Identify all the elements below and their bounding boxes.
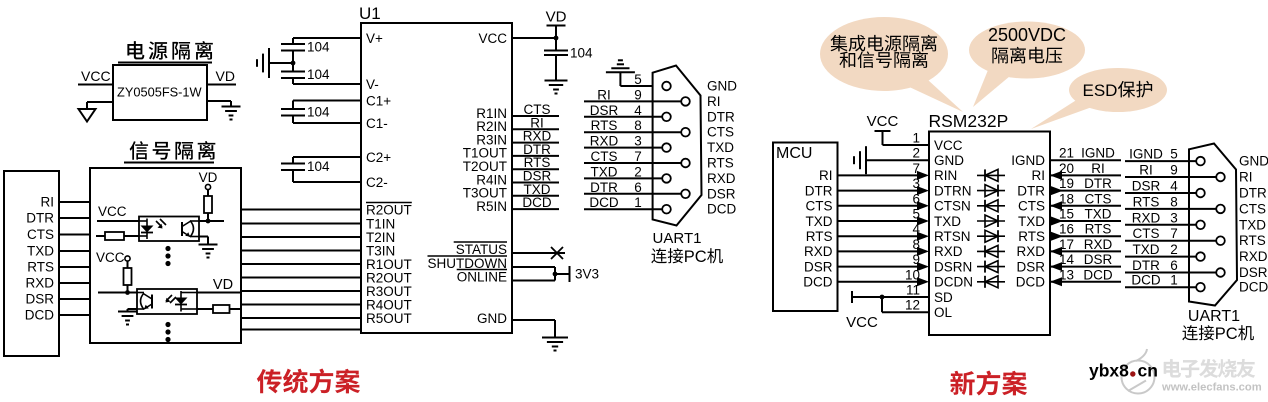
optocoupler U3 (channel 2) box [137, 289, 197, 314]
capacitor C1 104 [281, 40, 330, 55]
svg-text:C1+: C1+ [366, 93, 391, 108]
svg-text:RXD: RXD [1016, 244, 1045, 259]
svg-text:4: 4 [634, 103, 642, 118]
callout bubble ESD保护 [1031, 68, 1167, 129]
wire opto1 collector to pullup [199, 220, 224, 222]
power rail 3V3 [570, 266, 600, 282]
svg-text:RTS: RTS [1133, 194, 1160, 209]
svg-text:6: 6 [912, 191, 920, 206]
svg-text:13: 13 [1059, 267, 1074, 282]
svg-text:4: 4 [1170, 179, 1178, 194]
svg-text:GND: GND [477, 311, 507, 326]
svg-text:CTS: CTS [707, 125, 734, 140]
wire ground to pin 2 [866, 146, 929, 161]
DB9 right-side signal names (left connector) [707, 79, 737, 217]
svg-text:1: 1 [1170, 273, 1178, 288]
svg-text:DTR: DTR [590, 180, 618, 195]
svg-text:RXD: RXD [934, 244, 963, 259]
resistor (opto2 collector pullup) [124, 268, 132, 285]
svg-text:104: 104 [307, 67, 330, 82]
svg-text:2: 2 [634, 164, 642, 179]
U1 right net stubs CTS RI RXD DTR RTS DSR TXD DCD [512, 102, 559, 210]
caption 传统方案 (traditional solution) [257, 369, 360, 394]
svg-text:1: 1 [634, 195, 642, 210]
svg-text:RTS: RTS [1085, 222, 1112, 237]
svg-text:DSR: DSR [1084, 252, 1113, 267]
svg-text:IGND: IGND [1129, 147, 1163, 162]
svg-text:DTR: DTR [707, 109, 735, 124]
svg-text:7: 7 [912, 161, 920, 176]
svg-text:SD: SD [934, 290, 953, 305]
svg-text:18: 18 [1059, 191, 1074, 206]
wire resistor to collector node opto2 [125, 285, 130, 295]
U1 right pin labels [428, 31, 508, 326]
svg-text:CTS: CTS [806, 199, 833, 214]
svg-text:2: 2 [1170, 242, 1178, 257]
optocoupler U2 (channel 1) box [139, 217, 199, 242]
svg-text:9: 9 [1170, 163, 1178, 178]
svg-text:RXD: RXD [1084, 237, 1113, 252]
net label VD (opto2) [213, 277, 233, 293]
svg-text:DCD: DCD [1083, 267, 1112, 282]
svg-text:6: 6 [634, 180, 642, 195]
svg-text:15: 15 [1059, 207, 1074, 222]
net label VD (power module output) [216, 68, 235, 84]
svg-text:DTR: DTR [805, 183, 833, 198]
connector box (left serial signals) [4, 171, 59, 356]
DB9 connector UART1 shell (right) [1189, 144, 1237, 306]
MCU box [773, 143, 838, 312]
callout bubble 集成电源隔离和信号隔离 [820, 17, 963, 112]
svg-text:RI: RI [1091, 161, 1105, 176]
svg-text:RTSN: RTSN [934, 229, 971, 244]
net label VCC (opto2) [96, 250, 125, 265]
svg-text:14: 14 [1059, 252, 1075, 267]
svg-text:DCD: DCD [803, 275, 832, 290]
svg-text:GND: GND [1239, 154, 1268, 169]
svg-text:IGND: IGND [1081, 146, 1115, 161]
watermark logo circle with sprout [1122, 349, 1155, 394]
power isolation module ZY0505FS-1W [113, 65, 207, 120]
svg-text:VCC: VCC [81, 68, 111, 84]
svg-text:RXD: RXD [1132, 210, 1161, 225]
svg-text:RSM232P: RSM232P [929, 111, 1009, 131]
svg-text:RTS: RTS [707, 156, 734, 171]
svg-text:VD: VD [213, 277, 233, 293]
wires MCU to RSM232P pins 7 3 6 5 4 8 9 10 [838, 161, 930, 286]
earth ground (opto1 emitter) [199, 245, 218, 258]
svg-text:8: 8 [912, 237, 920, 252]
svg-text:RXD: RXD [804, 244, 833, 259]
svg-text:RXD: RXD [25, 276, 54, 291]
svg-text:C2-: C2- [366, 175, 388, 190]
capacitor C3 104 [281, 105, 330, 120]
svg-text:TXD: TXD [806, 214, 833, 229]
LED (opto1 emitter diode) [139, 219, 154, 240]
terminal circle VD opto1 [205, 184, 210, 189]
wire C3 to U1 C1- [293, 116, 361, 124]
wire power module to VD [207, 84, 236, 86]
svg-text:DSR: DSR [1016, 259, 1045, 274]
no-connect X on STATUS [512, 247, 565, 259]
watermark text ybx8.cn [1089, 361, 1158, 381]
svg-text:R5OUT: R5OUT [366, 311, 412, 326]
svg-text:VCC: VCC [934, 138, 963, 153]
svg-text:DTR: DTR [1132, 258, 1160, 273]
svg-text:IGND: IGND [1011, 153, 1045, 168]
svg-text:6: 6 [1170, 258, 1178, 273]
svg-text:9: 9 [634, 87, 642, 102]
DB9 pin circles (left connector) [662, 82, 690, 214]
earth ground (power module right) [222, 107, 241, 120]
svg-text:8: 8 [634, 118, 642, 133]
svg-text:2500VDC: 2500VDC [988, 25, 1066, 45]
svg-text:5: 5 [1170, 147, 1178, 162]
wire VCC to power module [78, 84, 113, 86]
wires VCC to pins 11 and 12 [852, 283, 929, 313]
signal isolation box [90, 168, 241, 343]
svg-text:3: 3 [912, 176, 920, 191]
svg-text:8: 8 [1170, 194, 1178, 209]
DB9 left stub wires with labels and pin numbers [584, 72, 681, 210]
svg-text:RTS: RTS [1018, 229, 1045, 244]
svg-text:DCD: DCD [1131, 273, 1160, 288]
svg-text:DTR: DTR [1084, 176, 1112, 191]
svg-text:RTS: RTS [806, 229, 833, 244]
svg-text:CTSN: CTSN [934, 199, 971, 214]
svg-text:104: 104 [307, 40, 330, 55]
svg-text:CTS: CTS [1239, 201, 1266, 216]
svg-text:RTS: RTS [27, 260, 54, 275]
svg-text:TXD: TXD [1133, 242, 1160, 257]
svg-text:RIN: RIN [934, 168, 957, 183]
svg-text:VD: VD [546, 9, 567, 26]
wire VCC to resistor opto2 [127, 261, 129, 268]
svg-text:TXD: TXD [1018, 214, 1045, 229]
svg-text:ESD: ESD [1083, 81, 1118, 100]
wire resistor to collector node opto1 [206, 213, 211, 223]
svg-text:TXD: TXD [591, 164, 618, 179]
svg-text:11: 11 [906, 283, 920, 298]
svg-text:7: 7 [634, 149, 642, 164]
capacitor C5 104 [544, 38, 593, 80]
svg-text:3V3: 3V3 [575, 267, 599, 282]
terminal circle VCC opto2 [125, 256, 130, 261]
ellipsis dots (more channels, lower) [165, 322, 170, 342]
svg-text:TXD: TXD [1239, 217, 1266, 232]
svg-text:C1-: C1- [366, 116, 388, 131]
svg-text:RI: RI [41, 195, 55, 210]
svg-text:20: 20 [1059, 161, 1074, 176]
earth ground (RSM232P pin2, rotated) [854, 146, 866, 174]
svg-text:TXD: TXD [934, 214, 961, 229]
svg-text:RI: RI [1139, 163, 1153, 178]
svg-text:DCD: DCD [589, 195, 618, 210]
wire VCC to pin 1 [883, 131, 930, 146]
wires left connector to signal isolation box [59, 202, 90, 315]
svg-text:DCD: DCD [1239, 280, 1268, 295]
svg-text:104: 104 [570, 46, 593, 61]
svg-text:DSR: DSR [25, 292, 54, 307]
label power-isolation title 电源隔离 [118, 41, 213, 63]
svg-text:DTR: DTR [1017, 183, 1045, 198]
DB9 right stub wires with labels and pin numbers [1125, 147, 1216, 288]
svg-text:UART1: UART1 [1188, 308, 1240, 325]
svg-text:10: 10 [905, 267, 920, 282]
IC U1 reference label [359, 4, 381, 23]
svg-text:2: 2 [912, 146, 920, 161]
wire U1 GND to earth [512, 320, 555, 337]
svg-text:9: 9 [912, 252, 920, 267]
svg-text:RI: RI [597, 87, 611, 102]
svg-text:C2+: C2+ [366, 150, 391, 165]
svg-text:DTR: DTR [1239, 186, 1267, 201]
svg-text:U1: U1 [359, 4, 381, 23]
svg-text:RTS: RTS [1239, 233, 1266, 248]
wire opto2 emitter to ground [128, 309, 138, 311]
svg-text:PC: PC [1215, 325, 1238, 343]
U1 left pin labels [366, 31, 412, 326]
wire power module pin2 left [87, 102, 113, 109]
svg-text:ybx8: ybx8 [1089, 361, 1129, 381]
wires signal isolation box to U1 [241, 210, 361, 330]
svg-text:TXD: TXD [1085, 207, 1112, 222]
svg-text:GND: GND [934, 153, 964, 168]
svg-text:104: 104 [307, 105, 330, 120]
RSM232P right stub wires pins 21 20 19 18 15 16 17 14 13 [1050, 146, 1121, 287]
callout bubble 2500VDC 隔离电压 [969, 22, 1085, 108]
svg-text:CTS: CTS [1018, 199, 1045, 214]
svg-text:7: 7 [1170, 226, 1178, 241]
svg-text:V-: V- [366, 77, 379, 92]
capacitor C2 104 [281, 63, 330, 82]
power rail VCC (RSM232P pin1) [867, 113, 899, 145]
svg-text:cn: cn [1138, 361, 1158, 381]
svg-text:DCD: DCD [25, 308, 54, 323]
svg-text:VD: VD [199, 170, 218, 185]
photon arrow opto1 [156, 219, 166, 229]
svg-text:CTS: CTS [591, 149, 618, 164]
svg-text:R2OUT: R2OUT [366, 202, 412, 217]
svg-text:R5IN: R5IN [476, 199, 507, 214]
svg-text:ZY0505FS-1W: ZY0505FS-1W [117, 85, 203, 100]
svg-text:VCC: VCC [846, 314, 878, 331]
svg-text:5: 5 [634, 72, 642, 87]
svg-text:12: 12 [905, 298, 920, 313]
svg-text:RXD: RXD [707, 171, 736, 186]
wire U1 VCC to VD node [512, 36, 558, 41]
svg-text:UART1: UART1 [653, 230, 702, 247]
svg-text:PC: PC [684, 248, 707, 266]
svg-text:4: 4 [912, 222, 920, 237]
svg-text:OL: OL [934, 305, 953, 320]
svg-text:TXD: TXD [707, 140, 734, 155]
label 连接PC机 (left connector) [651, 248, 723, 266]
svg-text:VCC: VCC [478, 31, 507, 46]
IC RSM232P reference label [929, 111, 1009, 131]
wire + resistor opto2 output [197, 305, 241, 313]
resistor (opto1 collector pullup) [204, 196, 212, 213]
earth ground (opto2 emitter) [118, 312, 137, 325]
label UART1 (right connector) [1188, 308, 1240, 325]
net label VCC (power module input) [81, 68, 111, 84]
phototransistor (opto1) [182, 221, 199, 238]
svg-text:VCC: VCC [98, 204, 127, 219]
DB9 right-side signal names (right connector) [1239, 154, 1268, 295]
svg-text:MCU: MCU [776, 145, 812, 162]
svg-text:DSR: DSR [1239, 265, 1268, 280]
svg-text:RXD: RXD [590, 134, 619, 149]
svg-text:19: 19 [1059, 176, 1074, 191]
svg-text:RI: RI [1032, 168, 1046, 183]
wire opto2 collector stub left [98, 292, 137, 294]
svg-text:RI: RI [1239, 170, 1253, 185]
wire U1 C2+ to C4 [293, 157, 361, 164]
IC RSM232P box [929, 132, 1050, 336]
earth ground (DB9 pin5) [606, 60, 635, 72]
svg-text:RI: RI [707, 94, 721, 109]
DB9 connector UART1 shell (left) [653, 66, 702, 226]
svg-text:DSR: DSR [590, 103, 619, 118]
RSM232P left pin labels [934, 138, 973, 320]
power rail VD (bar symbol) [546, 9, 567, 39]
svg-text:VCC: VCC [96, 250, 125, 265]
wire power module pin2 right [207, 101, 231, 106]
svg-text:DSR: DSR [804, 259, 833, 274]
wire C1 to ground node [291, 51, 296, 66]
svg-text:DCDN: DCDN [934, 275, 973, 290]
MCU pin labels RI DTR CTS TXD RTS RXD DSR DCD [803, 168, 833, 289]
RSM232P right pin labels [1011, 153, 1045, 290]
watermark www.elecfans.com [1161, 382, 1262, 394]
caption 新方案 (new solution) [950, 371, 1027, 396]
svg-text:104: 104 [307, 159, 330, 174]
capacitor C4 104 [281, 159, 330, 174]
svg-text:VCC: VCC [867, 113, 899, 130]
svg-text:CTS: CTS [1085, 191, 1112, 206]
ellipsis dots (more channels, upper) [165, 246, 170, 266]
net label VCC (opto1) [98, 204, 127, 219]
wire earth to DB9 pin 5 [620, 72, 663, 86]
svg-text:TXD: TXD [27, 244, 54, 259]
wire opto2 VD line [197, 292, 241, 294]
svg-text:DTRN: DTRN [934, 183, 972, 198]
phototransistor (opto2, mirrored) [137, 293, 152, 310]
svg-text:DSR: DSR [707, 186, 736, 201]
DB9 pin circles (right connector) [1196, 157, 1225, 292]
wires SHUTDOWN ONLINE to 3V3 [512, 267, 569, 281]
svg-text:5: 5 [912, 207, 920, 222]
svg-text:DTR: DTR [26, 211, 54, 226]
earth ground (capacitor bank) [257, 48, 269, 78]
earth ground (C5) [545, 81, 568, 94]
svg-text:21: 21 [1059, 146, 1074, 161]
svg-text:www.elecfans.com: www.elecfans.com [1161, 382, 1262, 394]
svg-text:DSRN: DSRN [934, 259, 972, 274]
LED (opto2) [175, 291, 198, 312]
svg-text:RXD: RXD [1239, 249, 1268, 264]
svg-text:3: 3 [634, 134, 642, 149]
svg-text:ONLINE: ONLINE [457, 269, 507, 284]
wire ground node to earth [270, 62, 293, 64]
svg-text:DCD: DCD [522, 195, 551, 210]
isolation diode symbols inside RSM232P [977, 169, 1005, 287]
ground (signal ground triangle) [79, 109, 96, 122]
watermark 电子发烧友 [1164, 359, 1255, 378]
pin labels RI DTR CTS TXD RTS RXD DSR DCD (left connector) [25, 195, 55, 323]
wire + resistor opto1 cathode [96, 232, 139, 240]
svg-text:STATUS: STATUS [456, 242, 507, 257]
svg-text:RI: RI [819, 168, 833, 183]
label signal-isolation title 信号隔离 [124, 141, 215, 163]
wire C2 to U1 V- [293, 78, 361, 84]
wire U1 V+ to C1 [293, 38, 361, 44]
wire VD to resistor opto1 [207, 190, 209, 197]
svg-text:1: 1 [912, 131, 920, 146]
wire C4 to U1 C2- [293, 170, 361, 182]
svg-text:DCD: DCD [1016, 275, 1045, 290]
svg-text:17: 17 [1059, 237, 1074, 252]
svg-text:CTS: CTS [27, 227, 54, 242]
net label VD (opto1 pullup) [199, 170, 218, 185]
svg-text:V+: V+ [366, 31, 383, 46]
svg-text:GND: GND [707, 79, 737, 94]
svg-text:RTS: RTS [591, 118, 618, 133]
power rail VCC (SD/OL pullup) [846, 291, 878, 331]
earth ground (U1 GND) [542, 338, 568, 351]
wire VCC opto1 anode [97, 220, 139, 222]
svg-text:VD: VD [216, 68, 235, 84]
svg-text:3: 3 [1170, 210, 1178, 225]
wire U1 C1+ to C3 [293, 101, 361, 110]
label UART1 (left connector) [653, 230, 702, 247]
wire opto1 emitter to ground [199, 237, 208, 245]
svg-text:DCD: DCD [707, 202, 736, 217]
svg-text:DSR: DSR [1132, 179, 1161, 194]
op-amp U1 (RS-232 transceiver) box [361, 23, 512, 333]
svg-text:CTS: CTS [1133, 226, 1160, 241]
label 连接PC机 (right connector) [1182, 325, 1254, 343]
photon arrow opto2 [166, 295, 177, 303]
svg-text:16: 16 [1059, 222, 1074, 237]
